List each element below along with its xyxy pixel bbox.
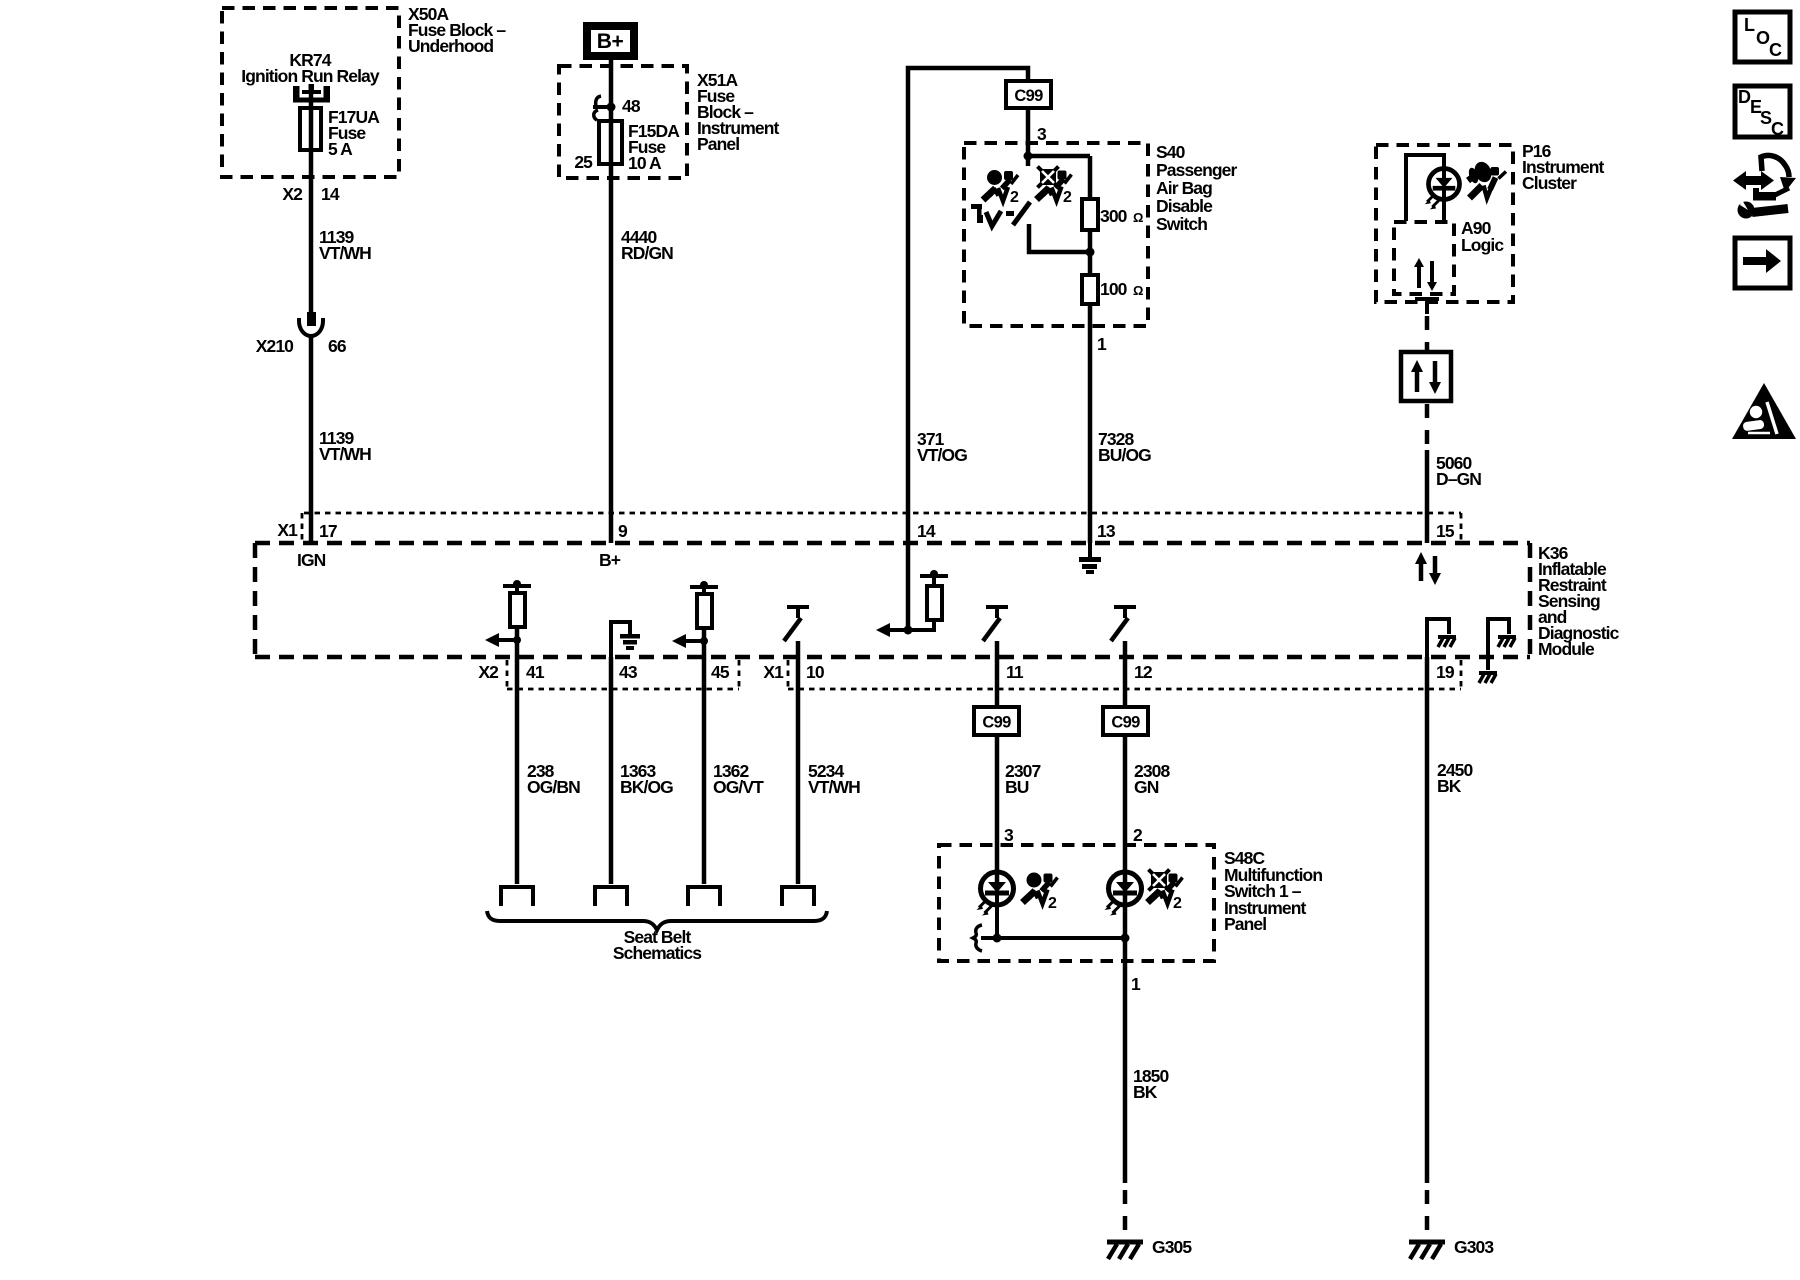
airbag on indicator icon (S48C left) (1023, 873, 1058, 913)
splice bus node 48 in X51A (593, 96, 641, 120)
svg-text:66: 66 (328, 336, 347, 356)
svg-text:Air Bag: Air Bag (1156, 178, 1212, 198)
svg-text:RD/GN: RD/GN (621, 243, 673, 263)
indicator LED in P16 (1425, 168, 1460, 221)
ground G305 (1107, 1237, 1192, 1259)
svg-text:BK: BK (1133, 1082, 1158, 1102)
wire label 1139 VT/WH (319, 227, 371, 263)
K36 internal: pull-up with arrow at pin 45 (672, 581, 718, 657)
fuse block X51A (dashed box) (559, 66, 779, 178)
K36 internal: ground hook at pin 43 (611, 622, 640, 657)
svg-text:3: 3 (1037, 124, 1047, 144)
K36 internal: switch at pin 10 (784, 607, 809, 657)
S48C common bus wire (973, 925, 1130, 951)
battery feed B+ terminal (587, 26, 634, 56)
K36 internal: case ground hook (1479, 619, 1516, 683)
svg-text:C99: C99 (1111, 714, 1140, 732)
wire 2308 GN: module pin 12 to S48C pin 2 (1123, 657, 1128, 707)
airbag on indicator icon (S40 left) (983, 170, 1019, 206)
svg-text:3: 3 (1004, 825, 1014, 845)
svg-text:O: O (1756, 28, 1770, 48)
svg-text:C99: C99 (982, 714, 1011, 732)
K36 internal: pull-up with arrow at pin 14 (876, 570, 948, 637)
connector X1 line (module bottom right) (763, 660, 1461, 689)
svg-text:Module: Module (1538, 639, 1595, 659)
svg-text:BK/OG: BK/OG (620, 777, 673, 797)
wire label 4440 RD/GN (621, 227, 673, 263)
fuse F15DA 10A (574, 121, 680, 173)
svg-text:B+: B+ (599, 550, 621, 570)
resistor 300 ohm (1082, 156, 1143, 252)
wire: S40 switch to resistor junction (1029, 224, 1090, 252)
svg-text:G303: G303 (1454, 1237, 1494, 1257)
svg-text:Ignition Run Relay: Ignition Run Relay (241, 66, 380, 86)
wire: B+ to module pin 9 (4440 RD/GN) (609, 60, 614, 543)
svg-text:13: 13 (1097, 521, 1116, 541)
resistor 100 ohm (1082, 252, 1143, 326)
svg-text:L: L (1744, 15, 1755, 35)
svg-text:12: 12 (1134, 662, 1153, 682)
fuse block X50A (dashed box) (222, 4, 506, 177)
svg-text:G305: G305 (1152, 1237, 1192, 1257)
svg-text:15: 15 (1436, 521, 1455, 541)
svg-text:2: 2 (1048, 895, 1057, 912)
svg-text:41: 41 (526, 662, 545, 682)
DESC icon box (1735, 86, 1790, 139)
svg-text:GN: GN (1134, 777, 1159, 797)
key actuator symbol in S40 (971, 204, 1014, 226)
wire label 371 VT/OG (917, 429, 967, 465)
wire 5234 VT/WH to seat belt (798, 657, 860, 884)
svg-text:10: 10 (806, 662, 825, 682)
node: S40 pin3 junction (1024, 152, 1091, 167)
svg-text:10 A: 10 A (628, 153, 662, 173)
svg-text:Switch: Switch (1156, 214, 1207, 234)
svg-text:BU: BU (1005, 777, 1029, 797)
relay KR74 ignition run relay (241, 50, 380, 103)
node junction below 300 ohm (1086, 248, 1095, 257)
svg-text:D–GN: D–GN (1436, 469, 1481, 489)
svg-text:2: 2 (1063, 189, 1072, 206)
inline connector C99 (pin 11) (974, 707, 1019, 735)
node: A90 output T (1415, 299, 1439, 314)
svg-text:OG/BN: OG/BN (527, 777, 580, 797)
svg-text:2: 2 (1010, 189, 1019, 206)
K36 internal: ground hook at pin 19 (1427, 619, 1456, 657)
airbag deployed icon in P16 (1467, 159, 1506, 198)
ground G303 (1409, 1237, 1494, 1259)
terminal (seat belt 43) (595, 887, 627, 906)
svg-text:VT/WH: VT/WH (319, 243, 371, 263)
wire: C99 to S40 pin 3 (1026, 108, 1031, 156)
serial data arrows in A90 (1414, 258, 1437, 291)
wire 2307 BU: module pin 11 to S48C pin 3 (995, 657, 1000, 707)
svg-text:BU/OG: BU/OG (1098, 445, 1151, 465)
svg-text:1: 1 (1131, 974, 1141, 994)
terminal (seat belt 10) (782, 887, 814, 906)
multifunction switch S48C (dashed box) (939, 845, 1322, 961)
svg-text:X2: X2 (282, 184, 303, 204)
instrument cluster P16 (dashed box) (1376, 141, 1604, 302)
svg-text:Underhood: Underhood (408, 36, 493, 56)
K36 internal: switch at pin 12 (1111, 607, 1136, 657)
inflatable restraint sensing and diagnostic module K36 (dashed box) (255, 543, 1620, 659)
svg-text:Ω: Ω (1133, 210, 1143, 225)
wire 1850 BK to ground G305 (1125, 961, 1169, 1237)
svg-text:Ω: Ω (1133, 283, 1143, 298)
wire 5060 D-GN to module pin 15 (1425, 450, 1430, 543)
brace: seat belt schematics (487, 911, 827, 963)
forward arrow icon box (1735, 238, 1790, 288)
indicator LED (S48C right) (1105, 845, 1142, 961)
K36 internal: switch at pin 11 (983, 607, 1008, 657)
svg-text:14: 14 (321, 184, 340, 204)
svg-text:IGN: IGN (297, 550, 326, 570)
svg-text:45: 45 (711, 662, 730, 682)
K36 internal: serial data arrows at pin 15 (1415, 552, 1441, 585)
logic module A90 (dashed box) (1394, 218, 1504, 294)
inline connector C99 (pin 12) (1103, 707, 1148, 735)
svg-text:B+: B+ (597, 30, 624, 53)
svg-text:Panel: Panel (697, 134, 739, 154)
svg-text:1: 1 (1097, 334, 1107, 354)
svg-text:OG/VT: OG/VT (713, 777, 764, 797)
svg-text:X1: X1 (763, 662, 784, 682)
svg-text:Cluster: Cluster (1522, 173, 1577, 193)
passenger air bag disable switch S40 (dashed box) (964, 142, 1238, 326)
svg-text:14: 14 (917, 521, 936, 541)
switch blade S40 (1013, 202, 1030, 225)
wire: X210 to module pin 17 (309, 337, 314, 543)
pin X2 14 of X50A (282, 184, 339, 204)
svg-text:X1: X1 (277, 520, 298, 540)
wire: relay to module pin 17 (1139 VT/WH) upper segment (309, 88, 314, 312)
inline connector X210 pin 66 (256, 312, 347, 356)
serial data dashed wire below bus symbol (1425, 404, 1430, 447)
svg-text:VT/WH: VT/WH (319, 444, 371, 464)
LOC icon box (1735, 12, 1790, 62)
connector X1 line (module top) (277, 513, 1461, 543)
svg-text:19: 19 (1436, 662, 1455, 682)
wire 2450 BK: module pin 19 to ground G303 (1427, 657, 1473, 1237)
inline connector C99 (top) (1006, 81, 1051, 108)
caution triangle icon (1732, 383, 1796, 439)
terminal (seat belt 41) (501, 887, 533, 906)
wire loop in P16 (1406, 155, 1444, 221)
svg-text:2: 2 (1133, 825, 1143, 845)
diagnostic arrows and wrench icon (1733, 155, 1796, 218)
svg-text:X2: X2 (478, 662, 499, 682)
svg-text:300: 300 (1100, 206, 1128, 226)
svg-text:S40: S40 (1156, 142, 1186, 162)
svg-text:Panel: Panel (1224, 914, 1266, 934)
wire 238 OG/BN to seat belt (517, 657, 580, 884)
svg-text:48: 48 (622, 96, 641, 116)
wire 1363 BK/OG to seat belt (611, 657, 673, 884)
svg-text:5 A: 5 A (328, 139, 353, 159)
svg-text:11: 11 (1006, 662, 1024, 682)
svg-text:BK: BK (1437, 776, 1462, 796)
svg-text:Schematics: Schematics (613, 943, 702, 963)
svg-text:2: 2 (1173, 895, 1182, 912)
svg-text:VT/WH: VT/WH (808, 777, 860, 797)
wire 7328 BU/OG: S40 pin1 to module pin 13 (1088, 326, 1093, 543)
svg-text:43: 43 (619, 662, 638, 682)
svg-text:9: 9 (618, 521, 628, 541)
serial data bus symbol (1401, 352, 1451, 401)
airbag off indicator icon (S48C right, crossed) (1148, 870, 1183, 913)
svg-text:Disable: Disable (1156, 196, 1213, 216)
wire 371 VT/OG: module pin 14 up and over to C99 (908, 68, 1028, 630)
K36 internal: pull-up with arrow at pin 41 (485, 580, 531, 657)
fuse F17UA 5A (300, 107, 380, 159)
K36 internal: ground at pin 13 (1079, 543, 1101, 574)
serial data dashed wire to bus symbol (1425, 316, 1430, 352)
svg-text:Passenger: Passenger (1156, 160, 1238, 180)
svg-text:C: C (1769, 40, 1782, 60)
svg-text:VT/OG: VT/OG (917, 445, 967, 465)
svg-text:17: 17 (319, 521, 337, 541)
svg-text:X210: X210 (256, 336, 294, 356)
terminal (seat belt 45) (688, 887, 720, 906)
indicator LED (S48C left) (977, 845, 1014, 938)
svg-text:100: 100 (1100, 279, 1128, 299)
wire label 1139 VT/WH (second) (319, 428, 371, 464)
svg-text:C: C (1771, 119, 1784, 139)
wire 1362 OG/VT to seat belt (704, 657, 764, 884)
connector X2 line (module bottom left) (478, 660, 739, 689)
airbag off indicator icon (S40 right, crossed) (1037, 167, 1073, 207)
svg-text:25: 25 (574, 152, 593, 172)
svg-text:Logic: Logic (1461, 235, 1504, 255)
svg-text:C99: C99 (1014, 87, 1043, 105)
